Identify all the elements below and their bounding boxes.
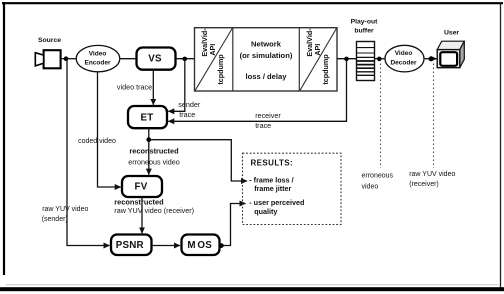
svg-text:ET: ET bbox=[141, 112, 154, 123]
svg-text:Video: Video bbox=[395, 50, 413, 57]
svg-text:API: API bbox=[313, 44, 322, 56]
block MOS bbox=[182, 235, 220, 256]
svg-text:API: API bbox=[208, 44, 217, 56]
svg-text:PSNR: PSNR bbox=[116, 240, 144, 251]
label video trace bbox=[117, 83, 152, 92]
wire encoder to VS bbox=[120, 58, 137, 60]
svg-text:receiver: receiver bbox=[255, 111, 281, 120]
wire VS to network bbox=[176, 58, 195, 60]
junction below ET bbox=[146, 137, 151, 142]
wire buffer to decoder bbox=[375, 58, 386, 60]
svg-text:reconstructed: reconstructed bbox=[129, 146, 179, 155]
wire receiver trace to ET bbox=[168, 59, 346, 121]
junction at MOS output bbox=[219, 243, 224, 248]
svg-text:erroneous: erroneous bbox=[362, 172, 394, 179]
svg-text:tcpdump: tcpdump bbox=[321, 54, 330, 85]
block PSNR bbox=[111, 235, 152, 256]
results dotted box bbox=[243, 153, 342, 224]
diagonal in right tcpdump cell bbox=[300, 28, 337, 91]
diagonal in left tcpdump cell bbox=[195, 28, 233, 91]
svg-text:raw YUV video: raw YUV video bbox=[42, 206, 88, 213]
frame bottom border bbox=[0, 287, 504, 291]
label raw YUV video receiver bottom bbox=[409, 171, 455, 188]
svg-text:video trace: video trace bbox=[117, 83, 152, 92]
label EvalVid-API left bbox=[200, 28, 217, 57]
svg-text:FV: FV bbox=[135, 181, 148, 192]
frame bottom faint line bbox=[6, 284, 500, 286]
wire FV down to PSNR bbox=[141, 197, 143, 233]
frame right border bbox=[500, 3, 502, 290]
junction at decoder output bbox=[429, 57, 434, 62]
wire ET down to FV bbox=[148, 128, 150, 174]
wire decoder to user bbox=[424, 58, 437, 60]
wire video trace VS to ET bbox=[152, 70, 154, 105]
wire PSNR to MOS bbox=[152, 245, 181, 247]
frame top border bbox=[2, 2, 503, 4]
label Source bbox=[38, 37, 61, 44]
block ET bbox=[128, 106, 167, 128]
play-out buffer icon bbox=[357, 42, 375, 81]
svg-text:buffer: buffer bbox=[354, 28, 374, 35]
svg-text:quality: quality bbox=[254, 207, 277, 216]
svg-text:MOS: MOS bbox=[187, 240, 212, 251]
label reconstructed erroneous video bbox=[128, 146, 180, 166]
wire sender trace to ET bbox=[168, 59, 185, 111]
wire raw YUV sender to PSNR bbox=[66, 59, 110, 246]
wire ET junction to results frame loss bbox=[149, 140, 247, 181]
wire coded video to FV bbox=[98, 72, 121, 187]
svg-text:User: User bbox=[444, 30, 459, 37]
svg-text:Network: Network bbox=[251, 40, 282, 49]
user monitor icon bbox=[437, 41, 464, 67]
svg-text:raw YUV video (receiver): raw YUV video (receiver) bbox=[114, 206, 194, 215]
label sender trace bbox=[178, 100, 201, 119]
svg-text:(or simulation): (or simulation) bbox=[240, 51, 293, 60]
svg-text:Video: Video bbox=[89, 50, 107, 57]
svg-text:Source: Source bbox=[38, 37, 61, 44]
junction at camera output bbox=[64, 56, 69, 61]
block Video Encoder bbox=[76, 45, 120, 71]
svg-text:coded video: coded video bbox=[78, 138, 116, 145]
block FV bbox=[122, 176, 162, 197]
label reconstructed raw YUV video (receiver) bbox=[114, 198, 194, 215]
svg-text:raw YUV video: raw YUV video bbox=[409, 171, 455, 178]
camera source icon lens bbox=[35, 53, 43, 66]
block VS bbox=[137, 48, 176, 70]
svg-text:trace: trace bbox=[179, 110, 195, 119]
svg-text:trace: trace bbox=[255, 121, 271, 130]
dotted wire erroneous video bbox=[380, 64, 382, 169]
label user perceived quality bbox=[249, 198, 304, 216]
frame left border bbox=[3, 2, 5, 275]
wire MOS to results user perceived bbox=[221, 204, 246, 246]
label EvalVid-API right bbox=[305, 28, 322, 57]
svg-text:Decoder: Decoder bbox=[390, 59, 416, 66]
svg-text:VS: VS bbox=[148, 54, 162, 65]
wire camera to encoder bbox=[61, 58, 77, 60]
label RESULTS bbox=[251, 159, 294, 168]
svg-text:Play-out: Play-out bbox=[351, 19, 379, 26]
block Network box bbox=[195, 28, 338, 91]
svg-text:loss / delay: loss / delay bbox=[246, 72, 288, 81]
svg-text:frame jitter: frame jitter bbox=[254, 184, 291, 193]
svg-text:video: video bbox=[362, 184, 379, 191]
svg-text:tcpdump: tcpdump bbox=[216, 54, 225, 85]
svg-text:(sender): (sender) bbox=[42, 216, 68, 223]
label tcpdump right bbox=[321, 54, 330, 85]
junction at buffer output bbox=[377, 57, 382, 62]
label frame loss / frame jitter bbox=[249, 175, 293, 193]
wire network to buffer bbox=[337, 58, 357, 60]
svg-text:sender: sender bbox=[178, 100, 201, 109]
label erroneous video bottom bbox=[362, 172, 394, 190]
camera source icon body bbox=[44, 50, 61, 68]
label Play-out buffer bbox=[351, 19, 379, 35]
label receiver trace bbox=[255, 111, 281, 130]
label tcpdump left bbox=[216, 54, 225, 85]
junction at VS output bbox=[183, 57, 188, 62]
block Video Decoder bbox=[385, 45, 424, 72]
label User bbox=[444, 30, 459, 37]
svg-text:Encoder: Encoder bbox=[84, 59, 110, 66]
junction at network output bbox=[344, 57, 349, 62]
label Network (or simulation) loss/delay bbox=[240, 40, 293, 82]
label raw YUV video (sender) bbox=[42, 206, 89, 223]
svg-text:RESULTS:: RESULTS: bbox=[251, 159, 294, 168]
svg-text:(receiver): (receiver) bbox=[409, 181, 439, 188]
svg-text:erroneous video: erroneous video bbox=[128, 158, 180, 167]
dotted wire raw YUV video receiver bbox=[433, 64, 435, 169]
label coded video bbox=[78, 138, 116, 145]
